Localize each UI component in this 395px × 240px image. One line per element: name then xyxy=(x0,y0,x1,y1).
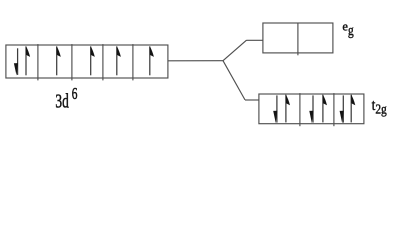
wire down diagonal xyxy=(223,61,245,100)
wire to eg box xyxy=(247,39,263,41)
electron up arrow t2g cell3 xyxy=(350,95,352,123)
electron up arrow cell5 xyxy=(149,47,151,76)
electron up arrow t2g cell2 xyxy=(322,95,324,123)
wire to t2g box xyxy=(245,99,259,101)
orbital box 3d xyxy=(6,45,168,78)
cell divider xyxy=(71,44,73,80)
svg-text:g: g xyxy=(348,22,354,38)
cell divider t2g xyxy=(299,93,301,126)
electron down arrow t2g cell1 xyxy=(276,95,278,122)
electron down arrow t2g cell2 xyxy=(312,95,314,122)
orbital box t2g xyxy=(259,94,364,124)
electron up arrow cell2 xyxy=(56,47,58,76)
cell divider xyxy=(102,44,104,80)
electron up arrow cell4 xyxy=(116,47,118,76)
svg-text:3d6: 3d6 xyxy=(55,85,77,112)
wire main horizontal xyxy=(168,60,223,62)
svg-text:t2g: t2g xyxy=(372,97,388,117)
electron up arrow cell1 xyxy=(25,47,27,76)
electron down arrow t2g cell3 xyxy=(342,95,344,122)
electron down arrow cell1 xyxy=(17,48,19,75)
cell divider eg xyxy=(297,23,299,55)
wire up diagonal xyxy=(223,40,247,61)
cell divider xyxy=(132,44,134,80)
cell divider t2g xyxy=(333,93,335,126)
electron arrows 3d box xyxy=(14,46,154,76)
electron up arrow t2g cell1 xyxy=(285,95,287,123)
orbital box eg xyxy=(263,23,333,53)
cell divider xyxy=(37,44,39,80)
electron up arrow cell3 xyxy=(90,47,92,76)
electron arrows t2g box xyxy=(273,94,355,123)
